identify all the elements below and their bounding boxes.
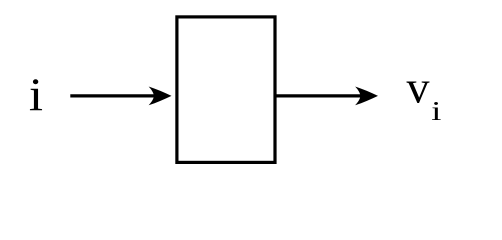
- output arrowhead: [355, 87, 378, 106]
- input arrowhead: [149, 87, 172, 106]
- block: [177, 17, 275, 163]
- wire: output arrow shaft: [275, 94, 363, 97]
- svg-text:v: v: [407, 61, 430, 112]
- wire: input arrow shaft: [70, 94, 156, 97]
- svg-text:i: i: [29, 69, 43, 120]
- svg-text:i: i: [431, 96, 441, 126]
